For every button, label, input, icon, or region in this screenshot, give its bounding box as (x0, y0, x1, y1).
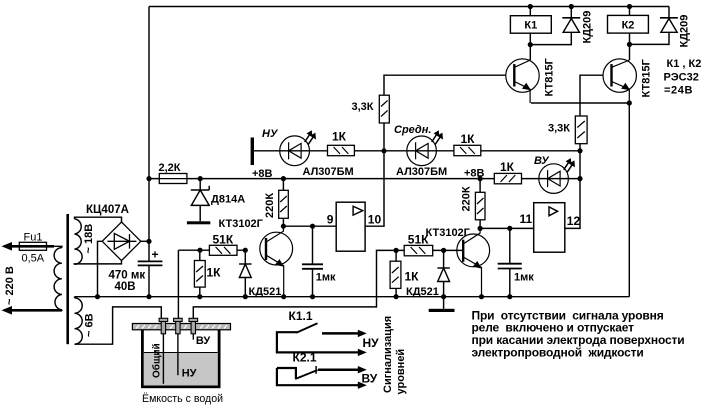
wire bridge DC- to 0V rail (98, 241, 103, 296)
wire relay K1 leads (529, 7, 531, 45)
svg-text:АЛ307БМ: АЛ307БМ (303, 166, 354, 178)
svg-text:51К: 51К (213, 233, 234, 247)
svg-text:НУ: НУ (182, 368, 197, 380)
resistor 1К НУ chain (328, 145, 355, 155)
svg-text:1К: 1К (405, 269, 420, 283)
svg-text:0,5А: 0,5А (22, 252, 45, 264)
wire Д814А branch (199, 179, 201, 222)
wire 51K left input line (178, 249, 245, 251)
capacitor C1 1мк (302, 264, 323, 269)
wire 51K right input line (396, 249, 463, 251)
transformer T1 core (66, 214, 69, 344)
wire 6V winding top to 0V rail (74, 297, 76, 298)
wire НУ-Средн indicator chain (253, 150, 580, 152)
fuse Fu1 (19, 242, 46, 250)
post ВУ (189, 318, 198, 334)
svg-text:НУ: НУ (262, 128, 279, 140)
note text block (472, 308, 685, 359)
wire capacitor C1 branch top (312, 226, 314, 264)
LED НУ АЛ307БМ (280, 135, 314, 166)
svg-text:1К: 1К (207, 266, 222, 280)
220V input arrow bottom (2, 306, 62, 315)
svg-text:220К: 220К (461, 186, 473, 211)
wire КД209-1 branch (530, 7, 571, 45)
wire 220K right branch (479, 179, 481, 229)
svg-text:ВУ: ВУ (196, 335, 211, 347)
svg-text:10: 10 (368, 213, 382, 227)
svg-text:~ 220 В: ~ 220 В (4, 266, 16, 305)
wire ground stub (443, 297, 445, 309)
relay K2 (608, 15, 649, 33)
LED Средн АЛ307БМ (407, 135, 440, 166)
svg-text:К1: К1 (524, 20, 537, 32)
svg-text:51К: 51К (408, 233, 429, 247)
transistor Q1 КТ815Г (506, 59, 539, 103)
wire КД521 left branch (244, 250, 246, 297)
svg-text:КД521: КД521 (406, 286, 439, 298)
diode КД209-2 (660, 18, 678, 33)
post common (159, 318, 168, 334)
electrode rod НУ (177, 330, 179, 375)
gate U1.1 pins 9-10 (336, 202, 365, 251)
LED ВУ АЛ307БМ (539, 162, 572, 193)
electrode rod ВУ (192, 330, 194, 340)
wire fuse line to primary (7, 246, 62, 247)
resistor 1К ВУ chain (494, 173, 521, 183)
resistor 1К right shunt (390, 261, 401, 288)
ground symbol (429, 309, 455, 312)
transformer T1 6V winding (75, 298, 83, 344)
svg-text:Ёмкость с водой: Ёмкость с водой (142, 393, 223, 405)
wire gate2 pin12 riser (565, 151, 580, 229)
terminal bar НУ input (251, 138, 254, 166)
resistor 51К left (209, 245, 237, 255)
bridge rectifier КЦ407А (102, 222, 141, 261)
resistor 3,3К right (575, 116, 587, 144)
wire КД521 right branch (443, 250, 445, 296)
wire КД209-2 branch (630, 7, 670, 45)
gate U1.2 pins 11-12 (534, 203, 565, 253)
diode КД521 left (239, 264, 251, 278)
svg-text:К2: К2 (622, 20, 635, 32)
diode КД209-1 (562, 18, 580, 33)
transistor Q3 КТ3102Г left (260, 226, 293, 297)
svg-text:Сигнализация: Сигнализация (382, 316, 394, 393)
svg-text:~ 18В: ~ 18В (83, 224, 95, 254)
svg-text:К1.1: К1.1 (289, 309, 313, 323)
resistor 220К right (475, 192, 485, 220)
svg-text:КД209: КД209 (582, 11, 594, 44)
svg-text:1К: 1К (500, 160, 515, 174)
transistor Q2 КТ815Г (603, 59, 636, 103)
svg-text:Средн.: Средн. (394, 124, 431, 136)
wire Q1 collector (529, 45, 531, 60)
svg-text:АЛ307БМ: АЛ307БМ (396, 166, 447, 178)
svg-text:Общий: Общий (151, 343, 163, 378)
wire emitters down to 0V rail (628, 103, 630, 297)
electrode rod common (162, 330, 164, 384)
svg-text:1мк: 1мк (316, 272, 336, 284)
svg-text:1К: 1К (332, 130, 347, 144)
resistor 1К Средн chain (454, 145, 481, 155)
svg-text:электропроводной жидкости: электропроводной жидкости (472, 345, 644, 359)
wire Q2 base riser through 3,3K right (580, 75, 603, 151)
svg-text:3,3К: 3,3К (548, 123, 570, 135)
svg-text:Д814А: Д814А (211, 193, 245, 205)
transformer T1 primary winding (54, 248, 62, 310)
wire primary bottom to arrow (7, 309, 62, 311)
wire Q2 collector (629, 44, 631, 60)
svg-text:КЦ407А: КЦ407А (86, 204, 129, 216)
svg-text:40В: 40В (115, 281, 136, 293)
wire ВУ electrode run to right stage (193, 250, 396, 318)
wire НУ electrode riser to tank (177, 250, 179, 318)
svg-text:уровней: уровней (395, 349, 407, 395)
wire left +24V column from top rail down to capacitor (148, 7, 150, 262)
svg-text:Fu1: Fu1 (24, 231, 43, 243)
resistor 220К left (279, 190, 289, 218)
contact K2.1 (277, 366, 360, 385)
wire +8V rail (149, 178, 580, 180)
wire emitters line (531, 102, 629, 104)
wire capacitor C3 bottom lead (148, 265, 150, 296)
resistor 2,2К (159, 174, 187, 184)
svg-text:12: 12 (567, 214, 581, 228)
wire 3,3K left branch up to Q1 base line (384, 75, 506, 151)
wire 18V winding top to bridge (75, 217, 122, 222)
svg-text:КТ815Г: КТ815Г (544, 57, 556, 96)
wire relay K2 leads (629, 7, 631, 45)
wire 220K left branch (282, 179, 284, 227)
transistor Q4 КТ3102Г right (457, 228, 490, 296)
svg-text:~ 6В: ~ 6В (84, 313, 96, 337)
wire gate1 pin10 riser (365, 151, 384, 226)
svg-text:9: 9 (327, 213, 334, 227)
svg-text:КД521: КД521 (249, 286, 282, 298)
tank walls (141, 330, 221, 388)
svg-text:К1 , К2: К1 , К2 (667, 58, 702, 70)
capacitor C2 1мк (498, 264, 522, 269)
label К1 К2 РЭС32 =24В (664, 58, 702, 97)
wire 18V winding bottom to bridge bottom (74, 261, 122, 264)
svg-text:11: 11 (520, 212, 533, 226)
wire bridge DC+ to filter node (141, 240, 149, 242)
220V input arrow top (2, 242, 55, 251)
svg-text:НУ: НУ (363, 336, 380, 350)
svg-text:1мк: 1мк (514, 272, 534, 284)
capacitor C3 470мк (138, 261, 163, 265)
svg-text:+8В: +8В (252, 168, 273, 180)
svg-text:3,3К: 3,3К (352, 101, 374, 113)
svg-text:К2.1: К2.1 (293, 351, 317, 365)
resistor 3,3К left (379, 95, 389, 123)
zener Д814А (191, 186, 209, 206)
wire 6V winding bottom to common electrode (75, 307, 162, 344)
wire top +24V rail (149, 6, 669, 8)
wire gate2 pin11 from collector node (480, 227, 534, 229)
diode КД521 right (437, 268, 449, 282)
tank cover hatched (132, 324, 230, 330)
wire capacitor C2 branch (509, 228, 511, 296)
svg-text:220К: 220К (264, 193, 276, 218)
wire capacitor C1 branch bottom (312, 269, 314, 297)
svg-text:=24В: =24В (664, 85, 693, 97)
wire gate1 pin9 from collector node (283, 225, 336, 227)
svg-text:КД209: КД209 (679, 15, 691, 48)
wire 1K left shunt branch (199, 250, 201, 297)
wire 1K right shunt branch (395, 250, 397, 296)
svg-text:470 мк: 470 мк (109, 270, 146, 282)
transformer T1 18V winding (75, 219, 83, 264)
svg-text:1К: 1К (461, 132, 476, 146)
resistor 1К left shunt (194, 261, 205, 288)
ground bar Д814А anode (187, 221, 210, 224)
svg-text:КТ3102Г: КТ3102Г (219, 218, 264, 230)
wire bottom 0V common rail (75, 296, 630, 298)
contact K1.1 (277, 323, 360, 352)
tank water (144, 353, 218, 386)
svg-text:КТ3102Г: КТ3102Г (426, 227, 471, 239)
post НУ (174, 318, 183, 334)
svg-text:ВУ: ВУ (362, 372, 378, 386)
resistor 51К right (404, 245, 433, 255)
relay K1 (510, 16, 551, 34)
svg-text:+: + (152, 248, 159, 262)
svg-text:КТ815Г: КТ815Г (641, 58, 653, 97)
svg-text:2,2К: 2,2К (159, 162, 181, 174)
svg-text:РЭС32: РЭС32 (664, 71, 699, 83)
